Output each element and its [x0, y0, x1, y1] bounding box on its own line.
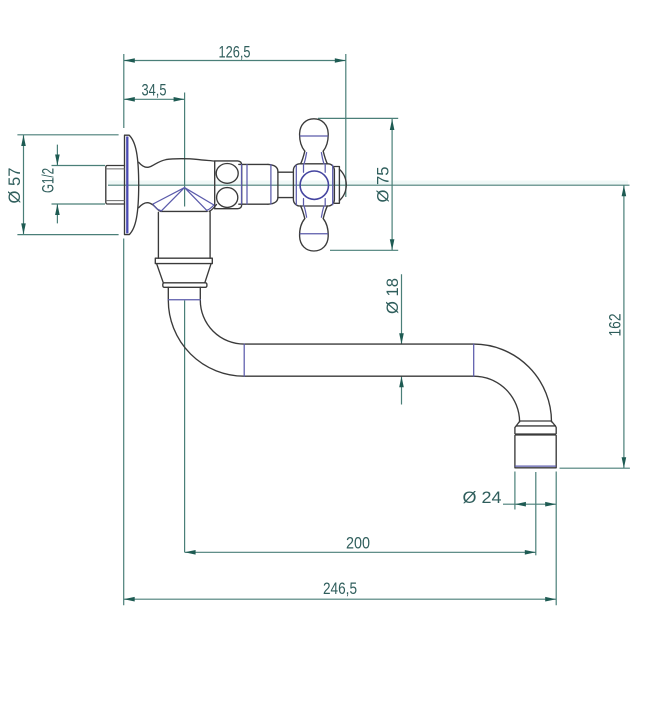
- arrows phi24: [515, 502, 526, 507]
- arrows 246,5: [124, 597, 135, 602]
- extension line: 126,5 right (handle dome tip): [345, 54, 347, 197]
- svg-text:34,5: 34,5: [142, 81, 167, 100]
- bonnet outline: [239, 164, 268, 204]
- cone fan foot arcs (blue): [153, 204, 214, 211]
- valve circle upper: [216, 164, 238, 184]
- handle top arm waist: [301, 151, 328, 164]
- dimension line 162: [623, 185, 625, 468]
- spout tube right inner bend: [474, 376, 520, 422]
- nozzle outlet line: [516, 465, 556, 467]
- arrows phi75: [390, 119, 395, 130]
- riser top rim: [161, 210, 207, 212]
- spout collar ring: [155, 258, 212, 263]
- svg-text:126,5: 126,5: [219, 43, 251, 62]
- top ball chord: [300, 135, 327, 137]
- wall flange outline: [125, 135, 139, 234]
- arrows 162: [622, 185, 627, 196]
- handle bottom ball: [300, 219, 329, 251]
- cone corner right: [209, 205, 216, 212]
- pale halo above main axis: [108, 181, 628, 185]
- tube seam left bend: [243, 344, 245, 376]
- extension line: G1/2 top: [52, 165, 106, 167]
- spout riser cylinder: [158, 212, 210, 259]
- nozzle flare: [516, 421, 555, 426]
- hub ring lines: [296, 164, 332, 206]
- extension line: 162 bottom (nozzle outlet plane): [560, 467, 630, 469]
- top waist flutes: [304, 153, 324, 164]
- dimension line phi75: [391, 119, 393, 250]
- svg-text:246,5: 246,5: [323, 579, 357, 598]
- handle dome arc: [339, 169, 346, 200]
- svg-text:200: 200: [346, 533, 370, 552]
- riser tube seam: [168, 299, 200, 301]
- bonnet ring lines: [242, 165, 271, 204]
- bottom waist flutes: [304, 206, 324, 217]
- arrows phi18: [399, 333, 404, 344]
- arrows 126,5: [124, 58, 135, 63]
- cone fan rays (blue): [153, 188, 214, 211]
- svg-text:Ø 75: Ø 75: [374, 167, 393, 203]
- handle hub outline: [293, 164, 334, 206]
- dimension line 34,5: [124, 98, 185, 100]
- handle top ball: [300, 119, 329, 151]
- bonnet end cap: [268, 164, 278, 204]
- nozzle cylinder: [515, 436, 556, 468]
- svg-text:Ø 24: Ø 24: [463, 488, 502, 507]
- extension line: G1/2 bottom: [52, 203, 106, 205]
- nozzle band sides: [515, 426, 556, 434]
- spout tube left outer edge: [168, 287, 473, 376]
- spout bead ring: [163, 283, 207, 288]
- body neck (waist) bottom: [139, 203, 161, 212]
- centerline: valve vertical axis: [184, 93, 186, 553]
- thread crest lines: [106, 169, 125, 201]
- arrows phi57: [21, 135, 26, 146]
- extension line: phi57 bottom: [17, 234, 118, 236]
- extension line: phi57 top: [17, 134, 118, 136]
- svg-text:Ø 18: Ø 18: [383, 278, 402, 314]
- extension line: phi24 left: [514, 472, 516, 510]
- extension line: wall plane (left, shared 126,5 / 34,5): [123, 54, 125, 128]
- centerline: main horizontal axis: [108, 184, 630, 186]
- centerline: nozzle vertical axis: [535, 472, 537, 555]
- dimension line 246,5: [124, 598, 557, 600]
- nozzle end cap line: [520, 420, 551, 422]
- svg-text:162: 162: [606, 314, 625, 337]
- nozzle thick joint line: [515, 433, 556, 435]
- svg-text:G1/2: G1/2: [39, 168, 58, 193]
- extension line: 246,5 left (wall plane lower): [123, 239, 125, 606]
- valve circle lower: [217, 188, 238, 208]
- dimension line phi18 (two segments): [401, 274, 403, 404]
- handle dome base band: [334, 167, 339, 204]
- extension line: phi24 right / 246,5 right (nozzle edge): [555, 472, 557, 606]
- threaded nipple G1/2 outline: [106, 166, 125, 205]
- dimension line 126,5: [124, 60, 346, 62]
- dimension line G1/2 (two segments): [56, 145, 58, 224]
- spout taper: [157, 264, 212, 283]
- arrows 34,5: [124, 97, 135, 102]
- valve boss outline: [215, 161, 242, 209]
- extension line: phi75 bottom: [330, 249, 398, 251]
- dimension line phi57: [23, 135, 25, 234]
- extension line: phi75 top: [318, 117, 398, 119]
- body neck (waist) top + body top silhouette: [139, 159, 215, 168]
- arrows G1/2: [55, 155, 60, 166]
- arrows 200: [185, 550, 196, 555]
- spout tube right outer bend: [474, 344, 552, 422]
- handle stem: [278, 172, 294, 197]
- handle hub circle: [300, 171, 328, 199]
- handle bottom arm waist: [301, 206, 328, 219]
- svg-text:Ø 57: Ø 57: [5, 168, 24, 204]
- bottom ball chord: [300, 233, 327, 235]
- spout tube right inner edge: [200, 287, 473, 344]
- dimension line 200: [185, 551, 536, 553]
- dimension line phi24: [503, 503, 556, 505]
- flange face (thick blue): [126, 137, 128, 234]
- tube seam right bend: [473, 344, 475, 376]
